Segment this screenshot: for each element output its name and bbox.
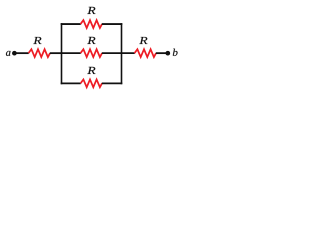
top rail left wire	[61, 23, 81, 25]
label a	[6, 51, 11, 56]
right vertical rail	[121, 23, 123, 84]
top rail right wire	[102, 23, 123, 25]
label R of R5	[139, 37, 147, 44]
wire a to R1	[14, 52, 28, 54]
middle rail left wire	[61, 52, 81, 54]
node b terminal dot	[165, 51, 170, 56]
left vertical rail	[61, 23, 63, 84]
resistor R1 zigzag	[29, 49, 51, 57]
resistor R5 zigzag	[135, 49, 157, 57]
wire R5 to node b	[156, 52, 168, 54]
label b	[173, 49, 178, 56]
wire R1 to left rail	[50, 52, 63, 54]
node a terminal dot	[12, 51, 17, 56]
bottom rail right wire	[102, 82, 123, 84]
label R of R3	[87, 37, 95, 44]
resistor R3 zigzag (middle branch)	[81, 49, 103, 57]
label R of R2	[87, 7, 95, 14]
middle rail right wire to R5	[102, 52, 135, 54]
resistor R4 zigzag (bottom branch)	[81, 79, 103, 87]
label R of R1	[33, 37, 41, 44]
bottom rail left wire	[61, 82, 81, 84]
resistor R2 zigzag (top branch)	[81, 20, 103, 28]
label R of R4	[87, 67, 95, 74]
